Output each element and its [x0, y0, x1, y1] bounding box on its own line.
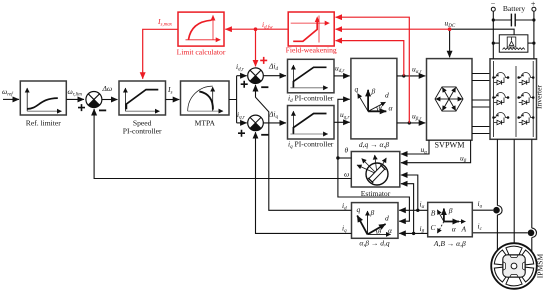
svg-text:α,β → d,q: α,β → d,q — [359, 239, 389, 248]
node on u_alpha_r — [402, 74, 405, 77]
svg-text:+: + — [531, 0, 536, 9]
block d,q to alpha,beta transform — [351, 58, 397, 138]
svg-text:Δω: Δω — [102, 84, 113, 93]
block alpha,beta to d,q transform — [352, 203, 399, 239]
svg-text:A: A — [461, 225, 467, 234]
svg-text:q: q — [357, 205, 361, 214]
block MTPA — [181, 81, 230, 115]
block Estimator — [351, 152, 400, 188]
wire Delta_i_d — [263, 75, 286, 77]
svg-text:Estimator: Estimator — [361, 189, 391, 198]
wire omega_r_lim — [66, 98, 84, 100]
svg-text:Battery: Battery — [503, 4, 526, 13]
svg-text:β: β — [371, 87, 376, 96]
block Ref. limiter — [20, 81, 66, 115]
wire theta up to dq-ab transform — [338, 99, 350, 158]
inverter cell row3 left — [492, 113, 509, 125]
svg-text:β: β — [370, 208, 375, 217]
wire i_q_r — [237, 122, 247, 124]
node u_DC — [448, 27, 452, 31]
svg-text:id PI-controller: id PI-controller — [288, 94, 334, 105]
wires SVPWM to inverter gate signals — [472, 74, 490, 134]
svg-text:d,q → α,β: d,q → α,β — [359, 140, 389, 149]
summing junction J1 speed — [78, 92, 106, 112]
inverter internal rails — [494, 61, 534, 137]
svg-text:A,B → α,β: A,B → α,β — [433, 239, 466, 248]
block i_d PI-controller — [288, 59, 335, 93]
inverter cell row1 left — [492, 73, 509, 85]
wire u_beta tap — [401, 140, 471, 163]
current sensor i_c — [528, 228, 537, 237]
svg-text:θ: θ — [345, 146, 349, 155]
inverter cell row1 right — [517, 73, 534, 85]
wire u_beta_r — [397, 122, 425, 124]
wire u_d_r — [334, 75, 350, 77]
wire omega_ref input — [3, 98, 19, 100]
block Limit calculator — [178, 12, 224, 46]
svg-text:Ref. limiter: Ref. limiter — [26, 119, 61, 128]
battery terminal minus — [491, 7, 495, 11]
wire chopper right connection — [528, 42, 534, 44]
wire red u_alpha to field-weakening — [336, 41, 404, 76]
capacitor DC link — [492, 14, 536, 27]
svg-text:Field-weakening: Field-weakening — [286, 46, 337, 55]
wire i_q feedback — [256, 132, 352, 233]
wire i_alpha tap to estimator — [401, 175, 418, 210]
wire MTPA output split — [229, 76, 237, 123]
wire u_q_r — [334, 121, 350, 123]
inverter cell row2 right — [517, 93, 534, 105]
node red i_d_fw branch — [254, 27, 258, 31]
wire Delta_i_q — [263, 122, 286, 124]
svg-text:iq PI-controller: iq PI-controller — [288, 140, 334, 151]
wire DC left rail — [492, 11, 494, 59]
svg-text:q: q — [355, 85, 359, 94]
wire Delta_omega — [102, 99, 118, 101]
wire i_beta to dq transform — [399, 232, 428, 234]
wire omega feedback — [94, 109, 351, 179]
wire u_alpha tap — [401, 140, 429, 154]
wire I_s_max red to speed controller — [143, 29, 178, 79]
svg-text:β: β — [448, 206, 453, 215]
wire phase C — [531, 139, 533, 251]
svg-text:SVPWM: SVPWM — [434, 141, 465, 150]
motor IPMSM — [491, 243, 537, 289]
svg-text:Inverter: Inverter — [535, 85, 544, 110]
svg-text:PI-controller: PI-controller — [123, 127, 162, 136]
block SVPWM — [427, 59, 473, 141]
svg-text:ω: ω — [344, 170, 349, 179]
inverter cell row2 left — [492, 93, 509, 105]
wire red down to J2 — [255, 29, 257, 66]
wire u_alpha_r — [397, 75, 425, 77]
svg-text:IPMSM: IPMSM — [536, 254, 545, 279]
svg-text:MTPA: MTPA — [195, 119, 216, 128]
wire u_DC tap to chopper — [450, 29, 514, 35]
wire i_d_r — [237, 75, 247, 77]
node on u_beta_r — [408, 121, 411, 124]
block Field-weakening — [288, 12, 334, 46]
battery terminal plus — [532, 7, 536, 11]
wire i_d feedback — [256, 85, 352, 210]
svg-text:d: d — [385, 91, 389, 100]
wire phase B — [513, 139, 515, 243]
wire chopper left connection — [493, 42, 499, 44]
wire I_s — [166, 99, 180, 101]
wire theta down to ab-dq transform — [338, 158, 410, 221]
block Inverter — [490, 59, 537, 140]
wire u_DC down-arrow into SVPWM — [449, 29, 451, 57]
wire i_beta tap to estimator — [401, 184, 414, 234]
wire i_d_fw red output — [225, 28, 288, 30]
wire theta output — [338, 157, 351, 159]
wire i_alpha to dq transform — [399, 209, 428, 211]
summing junction J3 q-axis — [238, 115, 268, 137]
wire red u_DC to field-weakening — [336, 28, 449, 30]
wire phase A — [496, 139, 498, 250]
wire red u_beta to field-weakening — [336, 17, 410, 123]
block i_q PI-controller — [288, 106, 335, 140]
inverter cell row3 right — [517, 113, 534, 125]
summing junction J2 d-axis — [241, 57, 269, 88]
brake chopper block — [499, 35, 528, 52]
svg-text:d: d — [385, 214, 389, 223]
block A,B to alpha,beta transform — [428, 202, 473, 236]
current sensor i_a — [493, 206, 502, 215]
wire i_c to transform — [472, 232, 527, 234]
svg-text:B: B — [431, 209, 436, 218]
wire DC right rail — [533, 11, 535, 59]
wire i_a to transform — [472, 209, 493, 211]
svg-text:−: − — [491, 0, 496, 8]
block Speed PI-controller — [119, 81, 166, 115]
svg-text:Limit calculator: Limit calculator — [177, 48, 226, 57]
